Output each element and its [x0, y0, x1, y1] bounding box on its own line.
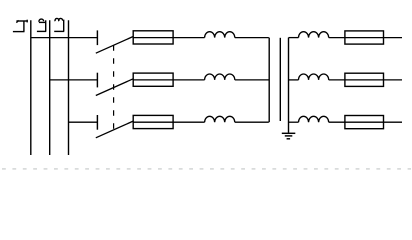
fuse F6 body [345, 116, 384, 129]
wire primary 2 to star bus [235, 79, 269, 81]
fuse F2 through wire [133, 79, 204, 81]
selection marquee dashed line [2, 168, 411, 170]
net label L1 [13, 20, 28, 32]
wire L3 to switch pole 3 [68, 121, 97, 123]
switch S1 pole 1 contact bar [96, 30, 98, 45]
switch S1 pole 3 contact bar [96, 115, 98, 130]
wire primary 3 to star bus [235, 121, 269, 123]
wire primary 1 to star bus [235, 37, 269, 39]
feeder wire L1 [30, 20, 32, 155]
fuse F3 through wire [133, 121, 204, 123]
transformer T1 secondary winding phase 2 [299, 74, 329, 80]
switch S1 pole 2 blade [96, 79, 134, 96]
switch S1 pole 1 blade [96, 36, 134, 53]
net label L2 [37, 19, 46, 31]
fuse F2 body [133, 73, 173, 86]
wire L2 to switch pole 2 [49, 79, 97, 81]
fuse F5 body [345, 73, 384, 86]
fuse F4 body [345, 31, 384, 44]
transformer T1 secondary winding phase 1 [299, 32, 329, 38]
net label L3 [54, 18, 64, 31]
fuse F1 body [133, 31, 173, 44]
transformer T1 core line [279, 38, 281, 121]
wire secondary 3 to fuse F6 and output [329, 121, 402, 123]
fuse F1 through wire [133, 37, 204, 39]
wire secondary 2 to fuse F5 and output [329, 79, 402, 81]
transformer T1 primary winding phase 3 [205, 116, 235, 122]
ground symbol [282, 133, 296, 139]
switch S1 pole 2 contact bar [96, 73, 98, 88]
wire secondary bus to winding 3 [289, 121, 299, 123]
transformer T1 secondary winding phase 3 [299, 116, 329, 122]
wire secondary bus to winding 2 [289, 79, 299, 81]
wire secondary bus to winding 1 [289, 37, 299, 39]
secondary star-point bus [288, 38, 290, 133]
feeder wire L2 [49, 20, 51, 155]
transformer T1 primary winding phase 1 [205, 32, 235, 38]
fuse F3 body [133, 115, 173, 128]
switch S1 pole 3 blade [96, 121, 134, 138]
feeder wire L3 [68, 20, 70, 155]
wire L1 to switch pole 1 [31, 37, 98, 39]
switch S1 mechanical linkage (dashed) [113, 45, 115, 130]
primary star-point bus [268, 38, 270, 123]
wire secondary 1 to fuse F4 and output [329, 37, 402, 39]
transformer T1 primary winding phase 2 [205, 74, 235, 80]
